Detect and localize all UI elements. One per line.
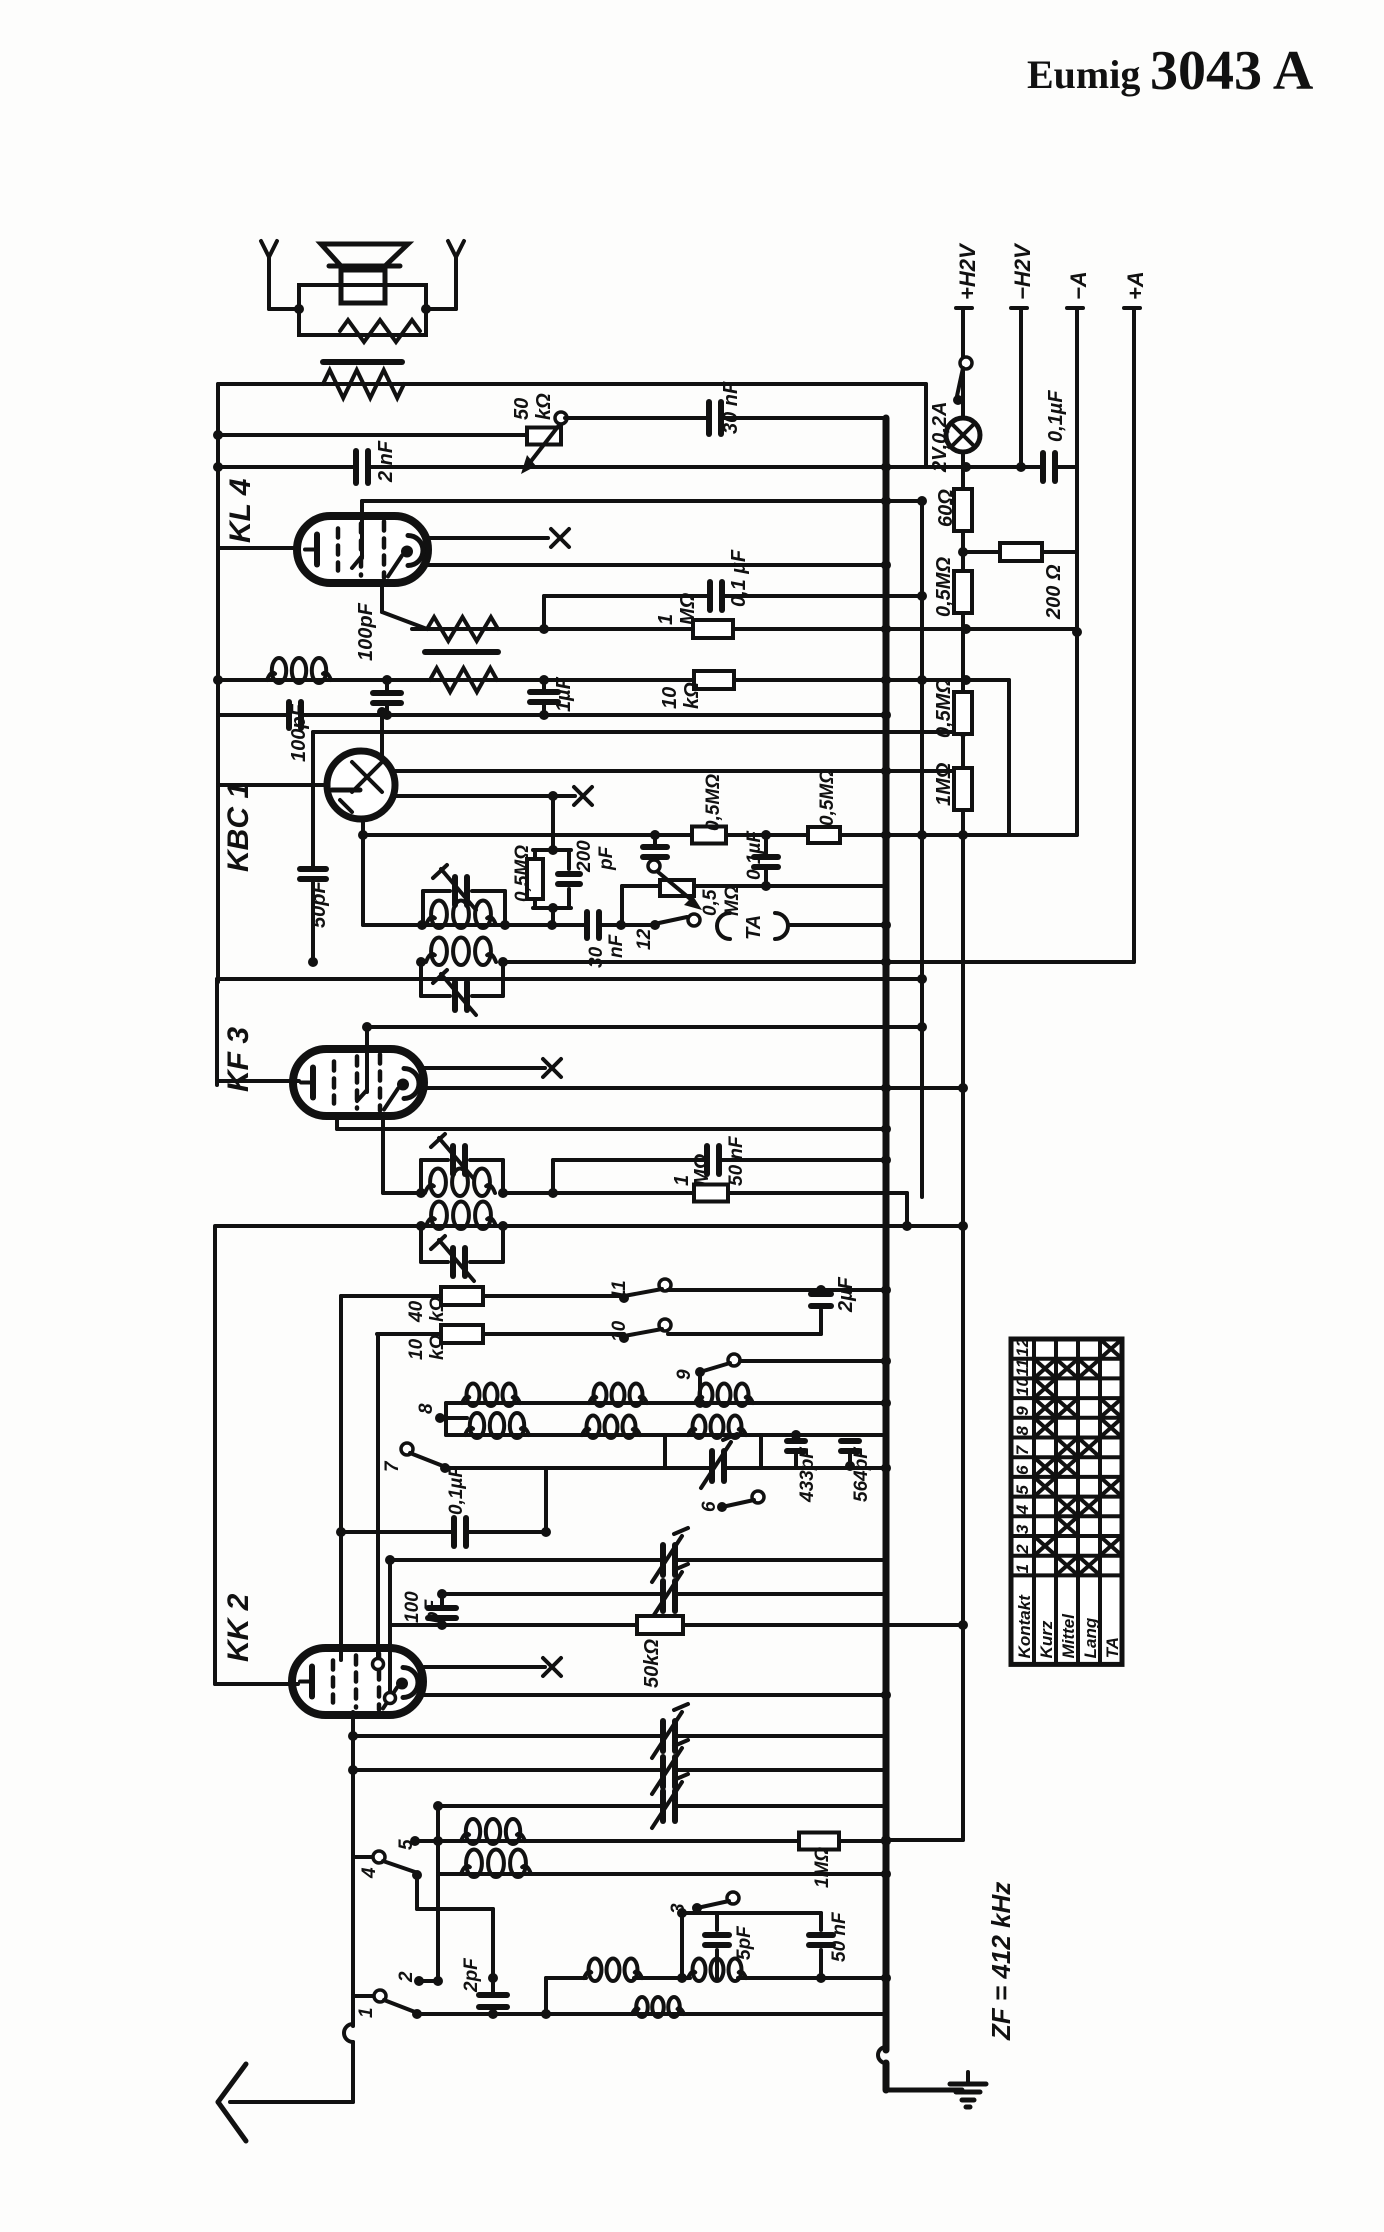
svg-text:6: 6: [699, 1501, 720, 1512]
svg-text:0,1µF: 0,1µF: [744, 830, 765, 880]
svg-text:5pF: 5pF: [734, 1925, 755, 1960]
svg-text:8: 8: [416, 1403, 437, 1414]
svg-text:100: 100: [402, 1591, 423, 1623]
svg-text:9: 9: [674, 1369, 695, 1380]
svg-text:KF 3: KF 3: [222, 1027, 255, 1092]
svg-text:200: 200: [574, 840, 595, 873]
svg-text:0,5MΩ: 0,5MΩ: [817, 769, 838, 826]
svg-text:Lang: Lang: [1081, 1617, 1100, 1658]
svg-text:MΩ: MΩ: [722, 885, 743, 916]
svg-text:564pF: 564pF: [851, 1446, 872, 1502]
svg-text:200 Ω: 200 Ω: [1043, 564, 1065, 620]
svg-text:0,5: 0,5: [700, 889, 721, 916]
svg-text:−A: −A: [1066, 271, 1091, 300]
svg-text:8: 8: [1013, 1426, 1032, 1436]
svg-text:10: 10: [609, 1320, 630, 1342]
svg-text:7: 7: [1013, 1444, 1032, 1455]
svg-text:5: 5: [1013, 1485, 1032, 1495]
svg-text:Kurz: Kurz: [1037, 1620, 1056, 1658]
svg-text:kΩ: kΩ: [427, 1296, 448, 1322]
svg-text:nF: nF: [606, 933, 627, 958]
svg-text:+A: +A: [1123, 271, 1148, 300]
svg-text:4: 4: [1013, 1504, 1032, 1515]
svg-text:TA: TA: [1103, 1637, 1122, 1658]
svg-text:2: 2: [1013, 1544, 1032, 1555]
svg-text:pF: pF: [422, 1598, 443, 1624]
svg-text:6: 6: [1013, 1465, 1032, 1475]
svg-text:3: 3: [668, 1903, 689, 1914]
svg-text:3043 A: 3043 A: [1150, 40, 1314, 102]
svg-text:1MΩ: 1MΩ: [933, 762, 955, 806]
svg-text:kΩ: kΩ: [533, 393, 555, 420]
svg-text:1: 1: [655, 614, 677, 625]
svg-text:2pF: 2pF: [461, 1957, 482, 1993]
svg-text:1: 1: [356, 2007, 377, 2018]
svg-text:0,5MΩ: 0,5MΩ: [933, 678, 955, 738]
svg-text:kΩ: kΩ: [427, 1334, 448, 1360]
svg-text:12: 12: [634, 928, 655, 950]
svg-text:9: 9: [1013, 1406, 1032, 1416]
svg-text:kΩ: kΩ: [681, 682, 703, 709]
svg-text:KBC 1: KBC 1: [222, 782, 255, 872]
svg-text:1MΩ: 1MΩ: [812, 1847, 833, 1888]
svg-text:7: 7: [382, 1460, 403, 1472]
svg-text:10: 10: [1013, 1377, 1032, 1396]
svg-text:2V,0,2A: 2V,0,2A: [929, 402, 951, 473]
svg-text:30: 30: [586, 946, 607, 968]
svg-text:0,5MΩ: 0,5MΩ: [703, 774, 724, 831]
svg-text:30 nF: 30 nF: [720, 381, 742, 434]
svg-text:50 nF: 50 nF: [726, 1135, 747, 1186]
svg-text:2: 2: [396, 1971, 417, 1983]
svg-text:Kontakt: Kontakt: [1015, 1594, 1034, 1659]
svg-text:50 nF: 50 nF: [829, 1911, 850, 1962]
svg-text:KL 4: KL 4: [224, 478, 257, 543]
svg-text:3: 3: [1013, 1524, 1032, 1534]
svg-text:433pF: 433pF: [797, 1446, 818, 1503]
svg-text:Mittel: Mittel: [1059, 1613, 1078, 1659]
svg-text:1: 1: [671, 1175, 693, 1186]
svg-text:11: 11: [1013, 1359, 1032, 1377]
svg-text:−H2V: −H2V: [1010, 242, 1035, 300]
svg-text:1: 1: [1013, 1564, 1032, 1573]
svg-text:1µF: 1µF: [553, 676, 575, 712]
svg-text:10: 10: [406, 1338, 427, 1360]
svg-text:10: 10: [659, 687, 681, 709]
svg-text:0,5MΩ: 0,5MΩ: [933, 557, 955, 617]
svg-text:50kΩ: 50kΩ: [641, 1639, 663, 1688]
svg-text:5: 5: [396, 1839, 417, 1850]
svg-text:0,1µF: 0,1µF: [1045, 390, 1067, 442]
svg-text:11: 11: [609, 1280, 630, 1300]
svg-text:pF: pF: [596, 845, 617, 871]
svg-text:12: 12: [1013, 1337, 1032, 1356]
svg-text:Eumig: Eumig: [1027, 52, 1140, 97]
svg-text:0,5MΩ: 0,5MΩ: [512, 845, 533, 902]
svg-text:0,1 µF: 0,1 µF: [728, 549, 750, 607]
svg-text:50pF: 50pF: [308, 881, 330, 928]
svg-text:TA: TA: [743, 915, 765, 940]
svg-text:100pF: 100pF: [288, 703, 310, 762]
svg-text:100pF: 100pF: [355, 602, 377, 661]
svg-text:2µF: 2µF: [835, 1276, 857, 1313]
svg-text:KK 2: KK 2: [222, 1593, 255, 1662]
svg-text:4: 4: [359, 1867, 380, 1879]
svg-text:MΩ: MΩ: [677, 592, 699, 625]
svg-text:2 nF: 2 nF: [375, 440, 397, 483]
svg-text:50: 50: [511, 398, 533, 420]
svg-text:+H2V: +H2V: [955, 242, 980, 300]
svg-text:60Ω: 60Ω: [935, 489, 957, 527]
svg-text:0,1µF: 0,1µF: [446, 1465, 467, 1515]
svg-text:MΩ: MΩ: [691, 1153, 713, 1186]
svg-text:40: 40: [406, 1300, 427, 1323]
svg-text:ZF = 412 kHz: ZF = 412 kHz: [986, 1882, 1016, 2041]
